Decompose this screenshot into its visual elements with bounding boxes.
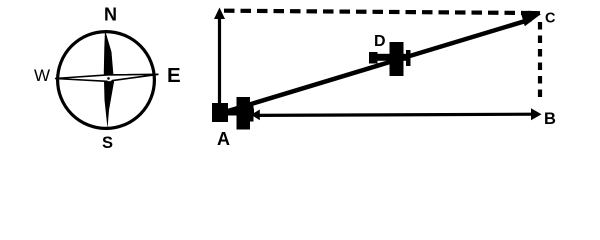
compass needle W-E bbox=[55, 74, 159, 81]
airplane at A bbox=[226, 97, 254, 130]
svg-text:B: B bbox=[544, 110, 556, 128]
svg-text:N: N bbox=[104, 5, 117, 25]
svg-text:C: C bbox=[545, 11, 556, 27]
svg-text:D: D bbox=[374, 33, 386, 50]
vector A to B bbox=[251, 108, 542, 120]
wind vector arrow up from A bbox=[214, 8, 225, 108]
svg-text:A: A bbox=[217, 129, 230, 149]
vector A to C bbox=[228, 13, 541, 111]
svg-text:S: S bbox=[102, 134, 113, 152]
svg-text:E: E bbox=[167, 64, 181, 87]
compass hub bbox=[106, 76, 112, 81]
dashed right line C to B bbox=[538, 22, 542, 100]
svg-text:W: W bbox=[34, 66, 50, 85]
compass needle N-S bbox=[104, 30, 114, 129]
compass circle bbox=[58, 32, 155, 129]
node A marker square bbox=[212, 103, 228, 122]
airplane at D bbox=[369, 42, 411, 76]
dashed top line bbox=[224, 11, 540, 14]
